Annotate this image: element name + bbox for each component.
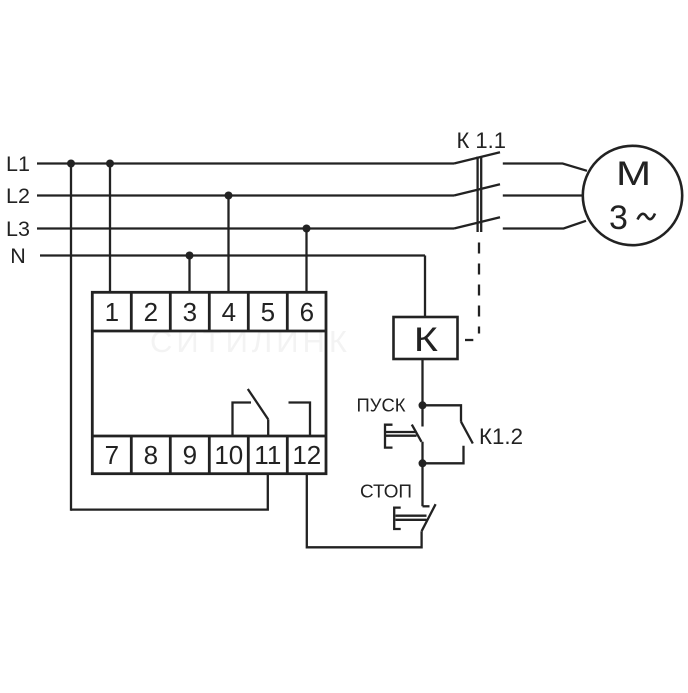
- svg-text:4: 4: [222, 297, 236, 327]
- stop button fixed hook: [423, 505, 430, 507]
- svg-text:L3: L3: [6, 217, 30, 241]
- contactor K1.1 linkage bar: [476, 157, 478, 233]
- svg-text:3: 3: [183, 297, 197, 327]
- wire L3 to terminal 6: [305, 229, 307, 293]
- wire L1 to motor: [503, 164, 587, 171]
- junction dot L2: [225, 192, 233, 200]
- relay device box: [92, 292, 326, 473]
- svg-text:К: К: [414, 321, 438, 359]
- wire L3 bus: [37, 227, 454, 229]
- relay contact fixed contact 12: [289, 403, 311, 438]
- junction dot L1 left: [67, 160, 75, 168]
- wire N to coil K: [424, 256, 426, 318]
- relay contact fixed contact 10: [233, 403, 252, 438]
- wire N to terminal 3: [188, 256, 190, 293]
- svg-text:ПУСК: ПУСК: [357, 395, 406, 416]
- svg-text:1: 1: [105, 297, 119, 327]
- svg-text:M: M: [616, 155, 651, 193]
- junction dot L3: [303, 225, 311, 233]
- contactor K1.1 pole L1 blade: [454, 152, 500, 163]
- wire L2 to terminal 4: [227, 196, 229, 293]
- svg-text:N: N: [10, 244, 26, 268]
- coil K: [394, 317, 458, 359]
- contact K1.2 branch wires: [423, 405, 462, 421]
- svg-text:5: 5: [261, 297, 275, 327]
- svg-text:7: 7: [105, 440, 119, 470]
- wire terminal 12 to stop button: [307, 474, 422, 548]
- svg-text:6: 6: [300, 297, 314, 327]
- svg-text:12: 12: [292, 440, 321, 470]
- stop button blade: [422, 504, 436, 531]
- svg-text:8: 8: [144, 440, 158, 470]
- wire L3 to motor: [503, 221, 586, 229]
- wire start button to stop button: [421, 442, 423, 507]
- wire L1 to terminal 1: [109, 164, 111, 293]
- svg-text:3: 3: [609, 199, 628, 237]
- junction dot N: [186, 252, 194, 260]
- wire L1 bus: [37, 162, 454, 164]
- svg-text:L2: L2: [6, 184, 30, 208]
- svg-text:СИТИЛИНК: СИТИЛИНК: [150, 324, 351, 359]
- contactor K1.1 linkage dashed link to coil: [478, 243, 480, 334]
- svg-text:L1: L1: [6, 152, 30, 176]
- contact K1.2 lower wire: [423, 446, 464, 464]
- svg-text:2: 2: [144, 297, 158, 327]
- svg-text:СТОП: СТОП: [360, 481, 412, 502]
- stop button actuator bracket: [394, 508, 401, 529]
- wire N bus: [40, 254, 425, 256]
- contactor K1.1 pole L2 blade: [454, 184, 500, 195]
- svg-text:К1.2: К1.2: [479, 424, 523, 449]
- svg-text:11: 11: [254, 440, 281, 470]
- junction dot start top: [419, 401, 427, 409]
- stop button plunger: [396, 515, 427, 517]
- relay contact blade 11: [248, 389, 268, 419]
- wire terminal 11 to L1 drop: [71, 474, 268, 510]
- wire coil K to start button: [421, 359, 423, 427]
- wire L2 bus: [37, 194, 454, 196]
- start button blade: [412, 425, 422, 442]
- junction dot L1 right: [106, 160, 114, 168]
- contactor K1.1 pole L3 blade: [454, 217, 500, 228]
- wire L1 to stop-circuit (left drop): [70, 164, 72, 511]
- svg-text:9: 9: [183, 440, 197, 470]
- svg-text:К 1.1: К 1.1: [457, 128, 507, 153]
- start button actuator bracket: [385, 425, 393, 448]
- start button plunger: [386, 431, 417, 433]
- svg-text:10: 10: [214, 440, 243, 470]
- junction dot start bottom: [419, 459, 427, 467]
- contact K1.2 blade: [461, 422, 473, 444]
- wire L2 to motor: [503, 194, 584, 196]
- motor M 3~: [583, 146, 682, 245]
